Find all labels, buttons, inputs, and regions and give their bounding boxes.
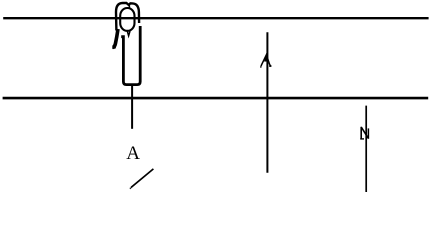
label N: right stroke bbox=[367, 128, 369, 138]
clamp ammeter: body bbox=[121, 26, 140, 85]
wire N (bottom conductor) bbox=[3, 97, 429, 100]
clamp ammeter: inner-jaw bottom notch bbox=[127, 31, 130, 36]
arrowhead (current direction up) bbox=[261, 55, 271, 68]
label N: diagonal stroke bbox=[361, 127, 368, 138]
clamp ammeter: trigger lever bbox=[113, 29, 118, 48]
clamp ammeter: lead stem to meter bbox=[131, 86, 133, 129]
label N: left stroke bbox=[360, 127, 362, 139]
phase conductor drop line with current arrow bbox=[266, 32, 268, 173]
clamp ammeter: inner jaw opening (oval around wire) bbox=[120, 8, 134, 31]
clamp ammeter: jaw junction tick at top bbox=[128, 4, 130, 8]
svg-text:A: A bbox=[126, 143, 140, 164]
pointer stroke under label A bbox=[131, 169, 154, 188]
wire L1 (top conductor) bbox=[3, 17, 428, 19]
clamp ammeter: trigger foot bbox=[112, 46, 116, 49]
label N: bottom-left foot bbox=[360, 138, 364, 140]
clamp ammeter: outer jaw arc bbox=[116, 3, 139, 31]
neutral drop line bbox=[365, 106, 367, 192]
